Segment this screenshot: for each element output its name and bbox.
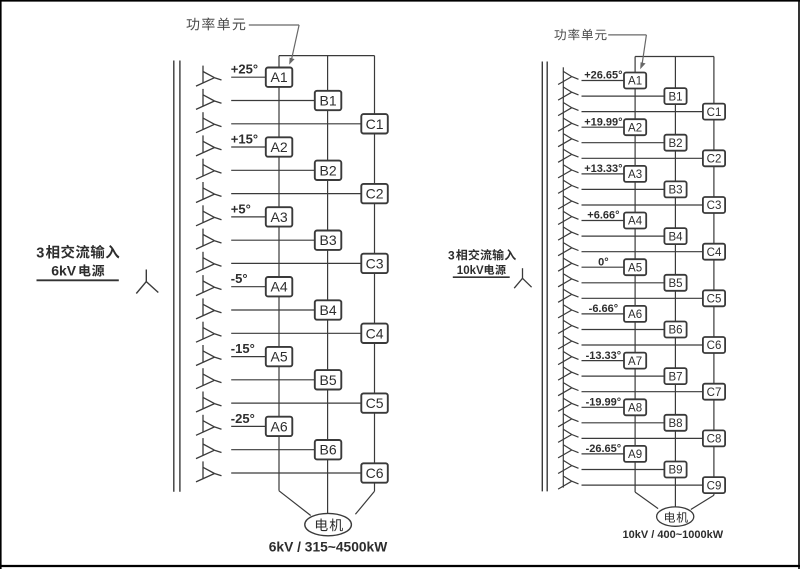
winding L12 (secondary, row C4)	[196, 322, 222, 343]
power cell B7	[664, 368, 686, 384]
svg-text:-5°: -5°	[231, 271, 248, 286]
3-phase source symbol right	[514, 268, 531, 288]
svg-text:10kV / 400~1000kW: 10kV / 400~1000kW	[622, 529, 723, 541]
wire row A5 input	[231, 356, 266, 358]
power cell B6	[664, 322, 686, 338]
svg-text:A4: A4	[271, 279, 288, 295]
svg-text:C8: C8	[707, 434, 722, 446]
label 功率单元 left	[187, 17, 246, 30]
wire row C4 input	[582, 251, 703, 253]
svg-text:C7: C7	[707, 387, 722, 399]
power cell C7	[703, 384, 725, 400]
power cell C4	[361, 324, 388, 343]
svg-text:A1: A1	[628, 76, 642, 88]
wire column A left	[279, 56, 311, 516]
wire row A2 input	[582, 126, 625, 128]
winding R9 (secondary, row C3)	[558, 192, 578, 209]
wire row B2 input	[231, 169, 315, 171]
power cell A3	[266, 207, 293, 226]
wire column B left	[327, 56, 329, 514]
svg-text:C3: C3	[707, 200, 722, 212]
svg-text:-15°: -15°	[231, 341, 255, 356]
winding R13 (secondary, row A5)	[558, 254, 578, 271]
power cell B3	[664, 181, 686, 197]
wire column C left	[355, 56, 374, 515]
svg-text:C1: C1	[366, 116, 384, 132]
wire row C4 input	[231, 332, 361, 334]
winding R6 (secondary, row C2)	[558, 145, 578, 162]
winding L1 (secondary, row A1)	[196, 66, 222, 87]
winding R1 (secondary, row A1)	[558, 67, 578, 84]
svg-text:B6: B6	[320, 442, 337, 458]
wire row A4 input	[231, 286, 266, 288]
power cell B5	[664, 275, 686, 291]
wire row A1 input	[231, 76, 266, 78]
leader arrow to power cell A1 left	[249, 25, 299, 65]
winding R16 (secondary, row A6)	[558, 301, 578, 318]
power cell A4	[624, 213, 646, 229]
wire row B4 input	[231, 309, 315, 311]
winding R24 (secondary, row C8)	[558, 425, 578, 442]
winding R10 (secondary, row A4)	[558, 207, 578, 224]
text 3相交流输入 / 10kV电源 right	[448, 248, 516, 277]
wire row C9 input	[582, 484, 703, 486]
wire row A3 input	[582, 173, 625, 175]
wire row C8 input	[582, 437, 703, 439]
svg-text:-19.99°: -19.99°	[586, 397, 622, 409]
svg-text:3: 3	[36, 245, 44, 261]
svg-text:+15°: +15°	[231, 131, 258, 146]
winding L3 (secondary, row C1)	[196, 112, 222, 133]
wire row B5 input	[231, 379, 315, 381]
svg-text:B5: B5	[320, 372, 337, 388]
wire row C2 input	[231, 193, 361, 195]
power cell B2	[315, 161, 342, 180]
wire row B4 input	[582, 235, 665, 237]
svg-text:A3: A3	[271, 209, 288, 225]
winding R12 (secondary, row C4)	[558, 239, 578, 256]
power cell A6	[624, 306, 646, 322]
wire row C3 input	[231, 262, 361, 264]
svg-text:B1: B1	[320, 93, 337, 109]
svg-text:B5: B5	[668, 278, 682, 290]
winding L16 (secondary, row A6)	[196, 415, 222, 436]
wire row A6 input	[231, 425, 266, 427]
motor M right (电机)	[657, 507, 694, 526]
winding R27 (secondary, row C9)	[558, 472, 578, 489]
power cell A9	[624, 446, 646, 462]
svg-text:6kV / 315~4500kW: 6kV / 315~4500kW	[269, 540, 388, 555]
svg-text:C5: C5	[366, 395, 384, 411]
svg-text:3: 3	[448, 248, 455, 262]
winding L15 (secondary, row C5)	[196, 392, 222, 413]
svg-text:6kV: 6kV	[51, 262, 77, 278]
svg-text:A2: A2	[628, 122, 642, 134]
svg-text:A8: A8	[628, 403, 642, 415]
winding L18 (secondary, row C6)	[196, 461, 222, 482]
power cell A2	[624, 119, 646, 135]
wire row A4 input	[582, 220, 625, 222]
winding R25 (secondary, row A9)	[558, 441, 578, 458]
winding R5 (secondary, row B2)	[558, 130, 578, 147]
svg-text:A3: A3	[628, 169, 642, 181]
wire row A1 input	[582, 80, 625, 82]
svg-text:0°: 0°	[598, 256, 609, 268]
power cell B5	[315, 370, 342, 389]
svg-text:10kV: 10kV	[457, 265, 484, 277]
wire top star link left	[279, 55, 375, 57]
svg-text:-25°: -25°	[231, 411, 255, 426]
winding L13 (secondary, row A5)	[196, 345, 222, 366]
wire row B6 input	[231, 449, 315, 451]
power cell A8	[624, 399, 646, 415]
winding R8 (secondary, row B3)	[558, 176, 578, 193]
power cell B9	[664, 462, 686, 478]
wire row B9 input	[582, 469, 665, 471]
wire column B right	[674, 57, 676, 508]
power cell B1	[315, 91, 342, 110]
text 3相交流输入 / 6kV电源 left	[36, 245, 119, 279]
power cell A3	[624, 166, 646, 182]
winding R17 (secondary, row B6)	[558, 316, 578, 333]
svg-text:B9: B9	[668, 465, 682, 477]
winding L2 (secondary, row B1)	[196, 89, 222, 110]
winding R19 (secondary, row A7)	[558, 347, 578, 364]
svg-text:-13.33°: -13.33°	[586, 350, 622, 362]
wire top star link right	[635, 56, 714, 58]
wire row A7 input	[582, 360, 625, 362]
svg-text:C3: C3	[366, 255, 384, 271]
svg-text:+25°: +25°	[231, 62, 258, 77]
wire row A5 input	[582, 266, 625, 268]
wire row C5 input	[231, 402, 361, 404]
wire row B7 input	[582, 375, 665, 377]
svg-text:A9: A9	[628, 449, 642, 461]
svg-text:C4: C4	[366, 325, 384, 341]
wire row C1 input	[231, 123, 361, 125]
svg-text:C6: C6	[366, 465, 384, 481]
winding R4 (secondary, row A2)	[558, 114, 578, 131]
winding R20 (secondary, row B7)	[558, 363, 578, 380]
svg-text:B8: B8	[668, 418, 682, 430]
power cell B1	[664, 88, 686, 104]
wire row C1 input	[582, 111, 703, 113]
winding L8 (secondary, row B3)	[196, 229, 222, 250]
power cell A1	[624, 73, 646, 89]
power cell B3	[315, 231, 342, 250]
svg-text:B2: B2	[320, 162, 337, 178]
wire row B1 input	[231, 100, 315, 102]
power cell C6	[361, 463, 388, 482]
leader arrow to power cell A1 right	[608, 35, 646, 69]
svg-text:A6: A6	[628, 309, 642, 321]
power cell A5	[624, 259, 646, 275]
svg-text:+5°: +5°	[231, 201, 251, 216]
svg-text:A7: A7	[628, 356, 642, 368]
winding L6 (secondary, row C2)	[196, 182, 222, 203]
svg-text:-6.66°: -6.66°	[589, 303, 618, 315]
power cell B4	[664, 228, 686, 244]
winding R18 (secondary, row C6)	[558, 332, 578, 349]
wire row C5 input	[582, 297, 703, 299]
winding R3 (secondary, row C1)	[558, 98, 578, 115]
winding R7 (secondary, row A3)	[558, 161, 578, 178]
winding R11 (secondary, row B4)	[558, 223, 578, 240]
power cell C1	[703, 104, 725, 120]
winding R21 (secondary, row C7)	[558, 379, 578, 396]
input bus left (6kV)	[174, 61, 180, 492]
winding R23 (secondary, row B8)	[558, 410, 578, 427]
wire row B5 input	[582, 282, 665, 284]
power cell B8	[664, 415, 686, 431]
power cell B6	[315, 440, 342, 459]
power cell C4	[703, 244, 725, 260]
wire row B8 input	[582, 422, 665, 424]
power cell C9	[703, 477, 725, 493]
wire column A right	[635, 57, 658, 509]
wire row A3 input	[231, 216, 266, 218]
svg-text:-26.65°: -26.65°	[586, 443, 622, 455]
power cell A6	[266, 417, 293, 436]
wire row C6 input	[582, 344, 703, 346]
power cell C8	[703, 430, 725, 446]
power cell B4	[315, 300, 342, 319]
svg-text:B3: B3	[320, 232, 337, 248]
motor M left (电机)	[305, 513, 352, 535]
wire row B6 input	[582, 329, 665, 331]
winding R2 (secondary, row B1)	[558, 83, 578, 100]
power cell C5	[703, 290, 725, 306]
svg-text:A1: A1	[271, 69, 288, 85]
underline right source text	[453, 276, 510, 278]
winding L10 (secondary, row A4)	[196, 275, 222, 296]
svg-text:+13.33°: +13.33°	[584, 163, 622, 175]
wire row C7 input	[582, 391, 703, 393]
input bus right (10kV)	[542, 62, 547, 492]
3-phase source symbol left	[136, 270, 158, 294]
svg-text:B7: B7	[668, 371, 682, 383]
svg-text:B1: B1	[668, 91, 682, 103]
power cell A5	[266, 347, 293, 366]
wire row C6 input	[231, 472, 361, 474]
winding L14 (secondary, row B5)	[196, 368, 222, 389]
winding L4 (secondary, row A2)	[196, 135, 222, 156]
power cell C3	[361, 254, 388, 273]
svg-text:C9: C9	[707, 480, 722, 492]
svg-text:C2: C2	[366, 186, 384, 202]
power cell C3	[703, 197, 725, 213]
power cell C5	[361, 393, 388, 412]
svg-text:A4: A4	[628, 216, 643, 228]
underline left source text	[37, 279, 119, 281]
power cell A7	[624, 353, 646, 369]
svg-text:+6.66°: +6.66°	[587, 210, 619, 222]
power cell A4	[266, 277, 293, 296]
winding R26 (secondary, row B9)	[558, 456, 578, 473]
svg-text:B4: B4	[320, 302, 337, 318]
winding L9 (secondary, row C3)	[196, 252, 222, 272]
svg-text:B6: B6	[668, 325, 682, 337]
winding R15 (secondary, row C5)	[558, 285, 578, 302]
power cell B2	[664, 135, 686, 151]
winding L11 (secondary, row B4)	[196, 298, 222, 319]
svg-text:A2: A2	[271, 139, 288, 155]
wire row B2 input	[582, 142, 665, 144]
winding L17 (secondary, row B6)	[196, 438, 222, 459]
wire row A2 input	[231, 146, 266, 148]
svg-text:B3: B3	[668, 185, 682, 197]
svg-text:C6: C6	[707, 340, 722, 352]
wire row C2 input	[582, 157, 703, 159]
svg-text:B2: B2	[668, 138, 682, 150]
svg-text:C2: C2	[707, 154, 722, 166]
wire row B1 input	[582, 95, 665, 97]
power cell C1	[361, 114, 388, 133]
power cell C2	[361, 184, 388, 203]
winding R14 (secondary, row B5)	[558, 270, 578, 287]
wire row A9 input	[582, 453, 625, 455]
svg-text:+19.99°: +19.99°	[584, 116, 622, 128]
svg-text:C1: C1	[707, 107, 722, 119]
winding L7 (secondary, row A3)	[196, 205, 222, 226]
svg-text:B4: B4	[668, 231, 683, 243]
wire row B3 input	[231, 239, 315, 241]
winding R22 (secondary, row A8)	[558, 394, 578, 411]
power cell A2	[266, 137, 293, 156]
svg-text:A5: A5	[271, 349, 288, 365]
wire row A8 input	[582, 406, 625, 408]
svg-text:+26.65°: +26.65°	[584, 70, 622, 82]
label 功率单元 right	[554, 29, 606, 41]
wire row C3 input	[582, 204, 703, 206]
power cell C2	[703, 150, 725, 166]
winding L5 (secondary, row B2)	[196, 159, 222, 180]
svg-text:C4: C4	[707, 247, 722, 259]
wire column C right	[691, 57, 714, 510]
power cell C6	[703, 337, 725, 353]
wire row B3 input	[582, 188, 665, 190]
power cell A1	[266, 68, 293, 87]
svg-text:A5: A5	[628, 262, 642, 274]
svg-text:C5: C5	[707, 294, 722, 306]
svg-text:A6: A6	[271, 418, 288, 434]
wire row A6 input	[582, 313, 625, 315]
